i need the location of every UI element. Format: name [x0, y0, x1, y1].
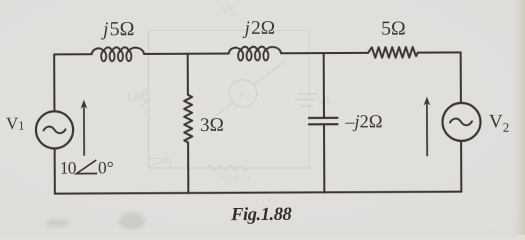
- ghost diagonal wire upper: [254, 62, 284, 85]
- wire: R2 to bottom: [187, 143, 189, 193]
- wire: top to capacitor: [323, 53, 325, 117]
- wire: L2 to resistor 5ohm: [281, 52, 367, 54]
- wire: top-left corner to inductor j5: [54, 54, 92, 111]
- source V2 circle: [442, 103, 480, 141]
- arrow V1 line: [83, 105, 85, 155]
- inductor L1 loops: [101, 51, 106, 61]
- ghost border top: [149, 30, 310, 32]
- ghost switch box: [149, 159, 170, 169]
- ghost battery lines: [295, 94, 318, 106]
- inductor L1 j5ohm humps: [92, 47, 145, 54]
- ghost border bottom: [149, 167, 312, 169]
- capacitor C1 plates: [309, 118, 338, 125]
- svg-text:–j2Ω: –j2Ω: [344, 111, 382, 131]
- ghost border right: [309, 31, 311, 168]
- source V2 tilde: [450, 119, 472, 126]
- ghost diagonal wire lower: [205, 103, 233, 125]
- source V1 circle: [36, 111, 73, 148]
- bottom wire: [55, 192, 461, 194]
- svg-text:0°: 0°: [98, 157, 114, 177]
- svg-text:10: 10: [60, 158, 77, 178]
- ghost left resistor zigzag: [141, 88, 147, 116]
- resistor R2 3ohm zigzag: [184, 95, 192, 143]
- wire: L1 to L2 (node A at x=188): [144, 53, 228, 55]
- angle symbol of 10∠0°: [76, 160, 97, 174]
- arrow V1 head: [80, 100, 87, 109]
- wire: R1 to top-right corner, down to V2: [418, 52, 461, 103]
- ghost border left: [148, 31, 150, 168]
- svg-text:5Ω: 5Ω: [381, 18, 406, 40]
- ghost ammeter circle: [229, 80, 257, 108]
- resistor R1 5ohm zigzag: [368, 47, 418, 58]
- inductor L2 j2ohm humps: [229, 47, 282, 54]
- svg-text:5Ω: 5Ω: [109, 18, 134, 40]
- arrow V2 line: [426, 102, 428, 155]
- wire: V2 bottom to bottom rail: [460, 141, 462, 192]
- svg-text:A: A: [238, 87, 247, 101]
- svg-text:25Ω: 25Ω: [127, 89, 151, 104]
- smudge bottom left: [45, 219, 71, 227]
- svg-text:3Ω: 3Ω: [200, 115, 224, 136]
- ghost bleed-through from reverse page: [141, 31, 319, 171]
- smudge 2: [119, 212, 145, 230]
- wire: V1 bottom to bottom rail: [54, 148, 56, 193]
- svg-text:2V: 2V: [220, 2, 237, 17]
- ghost resistor zigzag bottom: [207, 166, 249, 171]
- wire: node A down to resistor 3ohm: [187, 54, 189, 95]
- wire: capacitor to bottom: [323, 125, 325, 193]
- svg-text:(100Ω): (100Ω): [218, 172, 250, 184]
- svg-text:Fig.1.88: Fig.1.88: [230, 205, 291, 225]
- arrow V2 head: [423, 97, 430, 106]
- main circuit ink: [36, 46, 481, 194]
- source V1 tilde: [44, 127, 66, 134]
- svg-text:2Ω: 2Ω: [251, 18, 275, 39]
- inductor L2 loops: [238, 51, 243, 61]
